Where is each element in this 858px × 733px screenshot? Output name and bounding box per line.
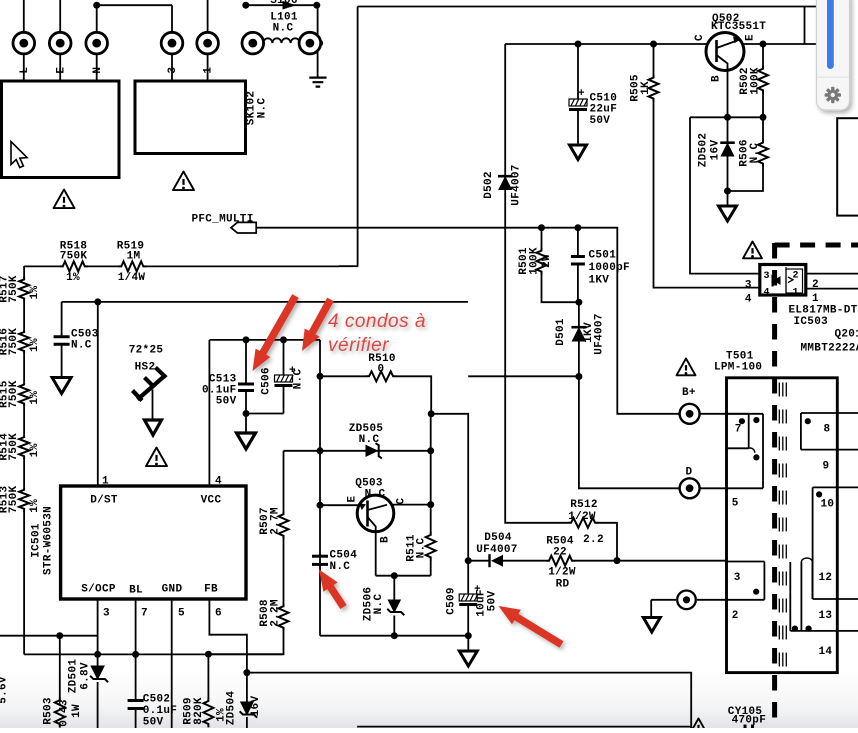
transformer T501 LPM-100 box bbox=[727, 378, 838, 673]
capacitor C506 N.C (electrolytic) bbox=[283, 340, 285, 375]
node bbox=[391, 572, 398, 579]
svg-text:1: 1 bbox=[102, 476, 109, 488]
zener ZD501 6.8V bbox=[97, 654, 99, 666]
svg-text:C506: C506 bbox=[261, 367, 273, 395]
node R505 top bbox=[650, 41, 657, 48]
svg-text:E: E bbox=[55, 67, 67, 74]
svg-text:LPM-100: LPM-100 bbox=[714, 362, 762, 374]
svg-text:N.C: N.C bbox=[257, 98, 269, 119]
svg-text:N.C: N.C bbox=[416, 538, 428, 559]
resistor R516 750K 1% bbox=[19, 330, 29, 354]
svg-text:7: 7 bbox=[735, 424, 742, 436]
svg-text:R503: R503 bbox=[43, 697, 55, 725]
wire Q503 C bbox=[393, 504, 431, 506]
wire pads to connector box bbox=[24, 53, 208, 81]
ground arrow C510 bbox=[570, 145, 587, 160]
svg-text:+: + bbox=[578, 88, 585, 100]
wire bbox=[23, 301, 25, 330]
svg-text:1W: 1W bbox=[71, 704, 83, 718]
wire opto emitter out bbox=[806, 288, 858, 290]
wire Q503 B bbox=[376, 531, 395, 576]
node Q503 C bbox=[427, 501, 434, 508]
svg-text:1: 1 bbox=[203, 67, 215, 74]
connector box (mains L/E/N) bbox=[2, 81, 120, 178]
svg-text:750K: 750K bbox=[8, 380, 20, 408]
capacitor C513 0.1uF 50V bbox=[245, 340, 247, 384]
wire R512 out bbox=[598, 523, 617, 561]
zener ZD505 N.C bbox=[366, 445, 379, 457]
inductor L101 N.C bbox=[263, 38, 299, 43]
node N top junction bbox=[93, 2, 100, 9]
wire R508 to FB rail bbox=[208, 631, 283, 655]
svg-text:EL817MB-DT: EL817MB-DT bbox=[789, 305, 858, 317]
svg-text:UF4007: UF4007 bbox=[511, 164, 523, 205]
wire snubber return bbox=[468, 375, 579, 377]
wire D501 to D pad bbox=[579, 377, 679, 489]
svg-text:N.C: N.C bbox=[71, 340, 92, 352]
resistor R508 2.2M bbox=[279, 604, 289, 631]
connector pad 1 bbox=[197, 32, 219, 54]
resistor R514 750K 1% bbox=[19, 435, 29, 459]
svg-text:1: 1 bbox=[812, 293, 819, 305]
wire mains stub E bbox=[59, 0, 61, 33]
svg-text:1%: 1% bbox=[29, 443, 41, 457]
svg-text:VCC: VCC bbox=[201, 495, 222, 507]
ground arrow C513 bbox=[237, 433, 256, 449]
node bbox=[760, 114, 767, 121]
wire Q502 emitter bbox=[743, 43, 836, 45]
node bbox=[132, 651, 139, 658]
wire bbox=[246, 413, 284, 415]
wire Q503 E bbox=[320, 504, 359, 506]
svg-text:6: 6 bbox=[215, 608, 222, 620]
svg-text:D: D bbox=[686, 467, 693, 479]
wire pin6 FB bbox=[209, 599, 247, 702]
svg-text:N.C: N.C bbox=[293, 369, 305, 390]
svg-text:2: 2 bbox=[732, 610, 739, 622]
svg-text:B+: B+ bbox=[682, 387, 696, 399]
wire base bias rail bbox=[690, 116, 763, 118]
svg-text:14: 14 bbox=[819, 646, 833, 658]
node bbox=[465, 632, 472, 639]
svg-text:5: 5 bbox=[732, 498, 739, 510]
resistor R518 750K 1% bbox=[24, 265, 60, 267]
svg-text:IC503: IC503 bbox=[794, 316, 829, 328]
wire R519 to corner bbox=[146, 265, 339, 267]
mouse cursor bbox=[11, 142, 27, 168]
warning triangle HS2 bbox=[146, 448, 167, 467]
wire N bus bbox=[97, 5, 172, 33]
svg-text:C509: C509 bbox=[446, 587, 458, 615]
node bbox=[614, 557, 621, 564]
node R501 top bbox=[538, 224, 545, 231]
svg-text:UF4007: UF4007 bbox=[476, 544, 517, 556]
wire to earth ground bbox=[317, 5, 319, 77]
ground arrow Q502 bias bbox=[727, 191, 729, 206]
svg-text:9: 9 bbox=[823, 461, 830, 473]
connector pad E bbox=[49, 32, 71, 54]
wire OCP sense net bbox=[0, 635, 98, 637]
annotation red arrows bbox=[253, 296, 562, 645]
warning triangle above opto bbox=[743, 241, 762, 258]
svg-text:1/4W: 1/4W bbox=[118, 272, 146, 284]
svg-text:470pF: 470pF bbox=[732, 715, 767, 727]
svg-text:1: 1 bbox=[793, 288, 799, 299]
node C501 top bbox=[574, 224, 581, 231]
svg-text:0.1uF: 0.1uF bbox=[143, 705, 178, 717]
svg-text:1KV: 1KV bbox=[589, 275, 610, 287]
wire to opto pin3 bbox=[690, 117, 760, 273]
svg-text:S106: S106 bbox=[270, 0, 298, 7]
svg-text:16V: 16V bbox=[710, 140, 722, 161]
wire bbox=[23, 354, 25, 383]
isolation boundary dashed line bbox=[775, 243, 858, 248]
svg-text:2.2: 2.2 bbox=[583, 534, 604, 546]
svg-text:0.43: 0.43 bbox=[59, 699, 71, 727]
svg-text:B: B bbox=[711, 75, 723, 82]
resistor R513 750K 1% bbox=[19, 487, 29, 511]
wire top-right link bbox=[804, 7, 806, 45]
svg-text:C504: C504 bbox=[330, 550, 358, 562]
node bbox=[205, 651, 212, 658]
ground arrow center bbox=[467, 636, 469, 651]
svg-text:2W: 2W bbox=[541, 254, 553, 268]
wire D/ST pin1 bbox=[97, 302, 99, 486]
wire D504 anode bbox=[468, 560, 489, 562]
capacitor C501 1000pF 1KV bbox=[577, 228, 579, 257]
svg-text:N.C: N.C bbox=[359, 434, 380, 446]
connector pad 3 bbox=[161, 32, 183, 54]
capacitor C509 10uF 50V (electrolytic) bbox=[467, 561, 469, 594]
svg-text:50V: 50V bbox=[590, 115, 611, 127]
svg-text:1%: 1% bbox=[29, 338, 41, 352]
wire bbox=[23, 459, 25, 488]
svg-text:1/2W: 1/2W bbox=[568, 511, 596, 523]
wire bottom box edge bbox=[357, 726, 691, 728]
primary winding 7-5 bbox=[727, 414, 749, 449]
svg-text:N.C: N.C bbox=[749, 143, 761, 164]
wire VCC net bbox=[209, 340, 320, 486]
svg-text:FB: FB bbox=[204, 584, 218, 596]
svg-text:ZD502: ZD502 bbox=[698, 133, 710, 168]
svg-text:Q201: Q201 bbox=[835, 329, 858, 341]
resistor R506 N.C bbox=[762, 117, 764, 140]
settings gear icon bbox=[825, 87, 841, 103]
wire PFC_MULTI to B+ bbox=[256, 228, 679, 414]
wire bbox=[283, 539, 285, 604]
optocoupler IC503 EL817MB-DT bbox=[760, 265, 806, 296]
svg-text:N.C: N.C bbox=[273, 23, 294, 35]
node bbox=[575, 299, 582, 306]
node bbox=[280, 336, 287, 343]
annotation red text bbox=[328, 311, 426, 356]
capacitor C504 N.C bbox=[312, 555, 328, 558]
resistor R510 0 bbox=[320, 375, 366, 377]
svg-text:RD: RD bbox=[556, 579, 570, 591]
svg-text:750K: 750K bbox=[8, 486, 20, 514]
svg-text:4: 4 bbox=[215, 476, 222, 488]
svg-text:vérifier: vérifier bbox=[328, 335, 389, 356]
warning triangle under SK102 bbox=[173, 172, 194, 191]
capacitor C502 0.1uF 50V bbox=[135, 654, 137, 700]
wire top net bbox=[358, 6, 835, 8]
earth ground symbol bbox=[309, 78, 326, 87]
wire R505 to opto pin4 bbox=[654, 101, 760, 288]
wire S/OCP ground rail bbox=[24, 653, 283, 655]
wire vertical from top net to R519 bbox=[339, 7, 358, 267]
secondary winding 10 bbox=[813, 487, 858, 599]
svg-text:E: E bbox=[745, 34, 757, 41]
resistor R502 100K bbox=[762, 44, 764, 66]
svg-text:N: N bbox=[92, 67, 104, 74]
connector pad L101-right bbox=[299, 32, 321, 54]
svg-text:100K: 100K bbox=[529, 247, 541, 275]
svg-text:C501: C501 bbox=[589, 250, 617, 262]
svg-text:5.6V: 5.6V bbox=[0, 676, 10, 704]
node R510 left bbox=[317, 373, 324, 380]
connector pad L bbox=[13, 32, 35, 54]
wire pin7 BL bbox=[135, 599, 137, 654]
wire bottom gnd net bbox=[320, 635, 468, 637]
resistor R505 1K bbox=[653, 44, 655, 75]
wire pin3 S/OCP bbox=[97, 599, 99, 654]
svg-text:750K: 750K bbox=[8, 328, 20, 356]
wire mains stub L bbox=[23, 0, 25, 33]
svg-text:1%: 1% bbox=[29, 286, 41, 300]
wire pin5 GND bbox=[171, 599, 173, 728]
svg-text:820K: 820K bbox=[193, 697, 205, 725]
svg-text:50V: 50V bbox=[487, 591, 499, 612]
browser scrollbar widget bbox=[817, 0, 850, 110]
svg-text:N.C: N.C bbox=[373, 594, 385, 615]
svg-text:UF4007: UF4007 bbox=[594, 313, 606, 354]
secondary winding 8 bbox=[801, 413, 858, 450]
node bbox=[94, 651, 101, 658]
node D504/C509 junction bbox=[465, 557, 472, 564]
svg-text:GND: GND bbox=[162, 584, 183, 596]
transformer core laminations bbox=[779, 383, 786, 397]
ground arrow C503 bbox=[52, 378, 71, 394]
zener ZD504 16V bbox=[241, 702, 254, 715]
svg-text:10: 10 bbox=[821, 499, 835, 511]
resistor R519 1M 1/4W bbox=[119, 261, 147, 271]
svg-text:D502: D502 bbox=[483, 171, 495, 199]
node bbox=[391, 632, 398, 639]
svg-text:KTC3551T: KTC3551T bbox=[711, 21, 766, 33]
node bbox=[243, 410, 250, 417]
wire pad B+ to winding 7 bbox=[700, 414, 763, 489]
svg-text:7: 7 bbox=[141, 608, 148, 620]
connector box SK102 bbox=[135, 81, 246, 154]
resistor R509 820K 1% bbox=[207, 654, 209, 698]
component box right edge (clipped) bbox=[837, 118, 858, 215]
wire pad D to winding 5 bbox=[700, 487, 763, 489]
wire pad2 rail bbox=[651, 599, 764, 601]
wire R510 out bbox=[396, 376, 431, 414]
svg-text:1000pF: 1000pF bbox=[589, 262, 630, 274]
wire opto collector out bbox=[806, 273, 858, 275]
node ZD505 right bbox=[427, 447, 434, 454]
resistor R511 N.C bbox=[430, 505, 432, 532]
IC U501 STR-W6053N box bbox=[61, 486, 246, 599]
wire bbox=[23, 406, 25, 435]
svg-text:3: 3 bbox=[103, 608, 110, 620]
wire stub pin1 SK102 bbox=[207, 0, 209, 33]
diode D502 UF4007 bbox=[504, 44, 506, 177]
pad T501 pin2 bbox=[677, 591, 696, 610]
resistor R503 0.43 1W bbox=[59, 636, 61, 697]
svg-text:3: 3 bbox=[764, 271, 770, 282]
svg-text:72*25: 72*25 bbox=[129, 345, 164, 357]
svg-text:100K: 100K bbox=[750, 67, 762, 95]
node bbox=[428, 410, 435, 417]
warning triangle T501 bbox=[677, 358, 696, 375]
zener ZD506 N.C bbox=[393, 576, 395, 600]
svg-text:D504: D504 bbox=[484, 532, 512, 544]
svg-text:8: 8 bbox=[824, 424, 831, 436]
svg-text:22uF: 22uF bbox=[590, 104, 618, 116]
resistor R507 2.7M bbox=[283, 451, 285, 512]
wire FB bottom rail bbox=[247, 673, 691, 728]
node D501 out bbox=[575, 373, 582, 380]
connector pad L101-left bbox=[242, 32, 264, 54]
svg-text:1%: 1% bbox=[29, 499, 41, 513]
svg-text:50V: 50V bbox=[143, 717, 164, 729]
svg-text:C502: C502 bbox=[143, 694, 171, 706]
ground arrow pad2 bbox=[650, 600, 652, 618]
svg-text:R512: R512 bbox=[570, 499, 598, 511]
winding 3-2 bbox=[727, 562, 765, 600]
resistor R517 750K 1% bbox=[19, 277, 29, 301]
svg-text:6.8V: 6.8V bbox=[80, 662, 92, 690]
svg-text:3: 3 bbox=[745, 280, 752, 292]
svg-text:E: E bbox=[347, 495, 359, 502]
svg-text:PFC_MULTI: PFC_MULTI bbox=[192, 214, 254, 226]
wire R504 to T501 pin3 bbox=[575, 560, 727, 562]
wire start-up net bbox=[62, 301, 468, 303]
svg-text:4 condos à: 4 condos à bbox=[328, 311, 426, 332]
secondary winding 12-13 bbox=[790, 562, 858, 631]
node junction D/ST bbox=[94, 298, 101, 305]
svg-text:1%: 1% bbox=[29, 391, 41, 405]
ground arrow HS2 bbox=[145, 420, 162, 435]
node bbox=[760, 41, 767, 48]
svg-text:0: 0 bbox=[378, 364, 385, 376]
svg-text:2.2M: 2.2M bbox=[270, 599, 282, 627]
node bbox=[724, 114, 731, 121]
svg-text:HS2: HS2 bbox=[135, 362, 156, 374]
svg-text:12: 12 bbox=[819, 572, 833, 584]
resistor R515 750K 1% bbox=[19, 382, 29, 406]
resistor R501 100K 2W bbox=[541, 228, 543, 248]
svg-text:2: 2 bbox=[793, 271, 799, 282]
node bbox=[243, 336, 250, 343]
node R503 top bbox=[56, 632, 63, 639]
wire column bottom to S/OCP rail bbox=[23, 511, 25, 654]
svg-text:16V: 16V bbox=[250, 696, 262, 717]
node Q503 E bbox=[317, 502, 324, 509]
svg-text:750K: 750K bbox=[8, 275, 20, 303]
svg-text:B: B bbox=[380, 536, 392, 543]
capacitor C503 N.C bbox=[61, 302, 63, 337]
svg-text:1M: 1M bbox=[127, 251, 141, 263]
svg-text:5: 5 bbox=[178, 608, 185, 620]
svg-text:BL: BL bbox=[129, 585, 143, 597]
svg-text:1%: 1% bbox=[66, 272, 80, 284]
svg-text:MMBT2222A: MMBT2222A bbox=[801, 343, 858, 355]
node ZD504 top bbox=[243, 669, 250, 676]
svg-text:22: 22 bbox=[553, 547, 567, 559]
svg-text:13: 13 bbox=[819, 610, 833, 622]
svg-text:4: 4 bbox=[745, 294, 752, 306]
svg-text:750K: 750K bbox=[60, 251, 88, 263]
svg-text:1/2W: 1/2W bbox=[548, 567, 576, 579]
resistor R512 1/2W 2.2 bbox=[568, 518, 599, 528]
svg-text:N.C: N.C bbox=[330, 561, 351, 573]
svg-text:IC501: IC501 bbox=[31, 523, 43, 558]
wire center right column bbox=[430, 414, 432, 505]
svg-text:L: L bbox=[19, 67, 31, 74]
diode D501 1KV UF4007 bbox=[578, 302, 580, 327]
svg-text:750K: 750K bbox=[8, 433, 20, 461]
svg-text:C: C bbox=[396, 497, 408, 504]
zener ZD502 16V bbox=[727, 117, 729, 142]
svg-text:ZD501: ZD501 bbox=[68, 659, 80, 694]
svg-text:4: 4 bbox=[764, 288, 770, 299]
warning triangle under mains box bbox=[54, 190, 75, 209]
svg-text:2.7M: 2.7M bbox=[270, 507, 282, 535]
svg-text:STR-W6053N: STR-W6053N bbox=[43, 506, 55, 575]
wire Q502 collector net bbox=[505, 43, 707, 45]
capacitor C510 22uF 50V bbox=[577, 44, 579, 99]
node ZD505 left bbox=[317, 447, 324, 454]
svg-text:D/ST: D/ST bbox=[90, 495, 118, 507]
node C510 top bbox=[575, 41, 582, 48]
svg-text:C: C bbox=[694, 34, 706, 41]
wire PFC divider leg bbox=[505, 228, 568, 523]
node bbox=[724, 188, 731, 195]
wire Q502 base bbox=[727, 67, 729, 117]
svg-text:ZD504: ZD504 bbox=[226, 691, 238, 726]
resistor R504 22 1/2W RD bbox=[503, 560, 546, 562]
wire ZD505 net bbox=[284, 450, 431, 452]
wire bbox=[431, 414, 468, 561]
wire left HV divider column top bbox=[23, 266, 25, 277]
svg-text:3: 3 bbox=[734, 572, 741, 584]
warning triangle bottom (clipped) bbox=[690, 718, 708, 733]
connector pad N bbox=[86, 32, 108, 54]
svg-text:D501: D501 bbox=[555, 318, 567, 346]
svg-text:3: 3 bbox=[167, 67, 179, 74]
svg-text:1K: 1K bbox=[640, 81, 652, 95]
switch S106 (clipped at top) bbox=[242, 2, 249, 9]
svg-text:S/OCP: S/OCP bbox=[81, 584, 116, 596]
svg-text:50V: 50V bbox=[216, 396, 237, 408]
wire bbox=[88, 265, 119, 267]
wire VCC right leg bbox=[319, 340, 321, 636]
